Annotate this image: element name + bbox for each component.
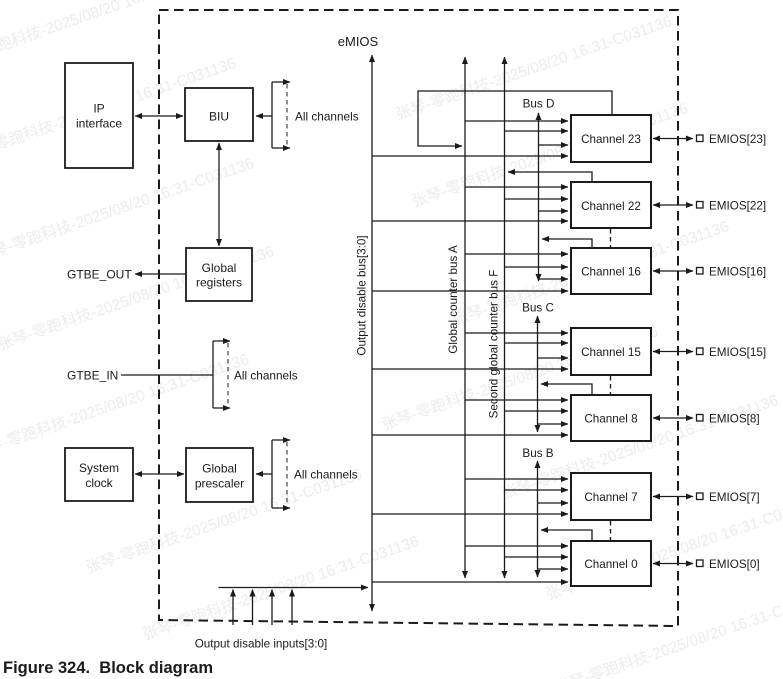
wires into Channel 16 <box>372 254 568 291</box>
svg-text:All channels: All channels <box>294 468 358 482</box>
box Channel 8 <box>571 395 651 441</box>
svg-text:Channel 8: Channel 8 <box>584 413 637 426</box>
wires into Channel 23 <box>372 121 568 156</box>
wire GTBE_IN <box>121 374 213 376</box>
svg-text:Second global counter bus F: Second global counter bus F <box>488 270 501 419</box>
EMIOS[22] pad <box>653 200 766 213</box>
svg-text:Channel 15: Channel 15 <box>581 346 641 359</box>
wire SystemClock-GlobalPrescaler double arrow <box>135 473 184 475</box>
wire IP-BIU double arrow <box>135 115 183 117</box>
wire channel0 drive loop to bus B <box>541 530 592 541</box>
svg-text:All channels: All channels <box>295 110 359 124</box>
wires into Channel 0 <box>372 546 568 582</box>
svg-text:Channel 16: Channel 16 <box>581 266 641 279</box>
svg-text:System: System <box>79 461 119 475</box>
box Channel 0 <box>571 541 651 586</box>
svg-text:Bus D: Bus D <box>523 98 555 111</box>
all-channels bracket at GTBE_IN <box>213 341 298 408</box>
EMIOS[15] pad <box>653 346 766 359</box>
svg-text:张琴-零跑科技-2025/08/20 16:31-C0311: 张琴-零跑科技-2025/08/20 16:31-C031136 <box>0 350 251 462</box>
svg-text:prescaler: prescaler <box>195 477 244 491</box>
svg-text:EMIOS[23]: EMIOS[23] <box>709 133 766 146</box>
box Channel 7 <box>571 473 651 520</box>
wires into Channel 7 <box>372 479 568 514</box>
svg-text:EMIOS[15]: EMIOS[15] <box>709 346 766 359</box>
dashed connector ch7-ch0 <box>610 521 612 540</box>
svg-text:interface: interface <box>76 117 122 131</box>
svg-text:Output disable bus[3:0]: Output disable bus[3:0] <box>356 235 369 355</box>
wire BIU-Global registers double arrow <box>218 143 220 246</box>
box Global registers <box>186 248 252 301</box>
svg-text:GTBE_OUT: GTBE_OUT <box>67 268 132 282</box>
wires into Channel 8 <box>372 400 568 435</box>
svg-text:EMIOS[22]: EMIOS[22] <box>709 200 766 213</box>
svg-text:All channels: All channels <box>234 369 298 383</box>
svg-text:IP: IP <box>93 102 104 116</box>
box Channel 22 <box>571 182 651 228</box>
svg-text:Global counter bus A: Global counter bus A <box>447 245 460 354</box>
svg-text:eMIOS: eMIOS <box>338 34 379 49</box>
output disable input arrows <box>233 590 292 626</box>
svg-text:Channel 22: Channel 22 <box>581 200 641 213</box>
wires into Channel 15 <box>372 333 568 369</box>
wire output disable collector <box>219 587 369 589</box>
wire channel22 drive loop to bus F <box>508 172 592 182</box>
box Channel 23 <box>571 115 651 162</box>
svg-text:clock: clock <box>85 476 113 490</box>
svg-text:registers: registers <box>196 276 242 290</box>
svg-text:Global: Global <box>202 261 237 275</box>
EMIOS[23] pad <box>653 133 766 146</box>
svg-text:Global: Global <box>202 462 237 476</box>
box System clock <box>65 448 133 501</box>
EMIOS[7] pad <box>653 491 760 504</box>
all-channels bracket at BIU <box>256 82 359 148</box>
svg-text:EMIOS[16]: EMIOS[16] <box>709 266 766 279</box>
svg-text:Bus C: Bus C <box>522 302 554 315</box>
bus Second global counter bus F vertical <box>504 57 506 578</box>
wires into Channel 22 <box>372 187 568 221</box>
svg-text:EMIOS[0]: EMIOS[0] <box>709 558 760 571</box>
svg-text:Bus B: Bus B <box>522 447 553 460</box>
svg-text:Channel 23: Channel 23 <box>581 133 641 146</box>
box Channel 16 <box>571 248 651 294</box>
EMIOS[0] pad <box>653 558 760 571</box>
wire GTBE_OUT arrow <box>135 273 186 275</box>
svg-text:BIU: BIU <box>209 110 229 124</box>
dashed connector ch22-ch16 <box>610 229 612 247</box>
wire channel16 drive loop to bus D <box>542 239 592 248</box>
bus B vertical <box>537 461 539 577</box>
svg-text:Channel 0: Channel 0 <box>584 558 638 571</box>
wire channel8 drive loop to bus C <box>541 384 592 395</box>
box IP interface <box>65 63 133 168</box>
svg-text:Output disable inputs[3:0]: Output disable inputs[3:0] <box>195 638 328 651</box>
bus Global counter bus A vertical <box>464 57 466 578</box>
svg-text:Figure 324. Block diagram: Figure 324. Block diagram <box>3 659 213 677</box>
svg-text:EMIOS[7]: EMIOS[7] <box>709 491 760 504</box>
EMIOS[8] pad <box>653 413 760 426</box>
dashed connector ch15-ch8 <box>610 376 612 394</box>
svg-text:EMIOS[8]: EMIOS[8] <box>709 413 760 426</box>
bus Output disable bus[3:0] vertical <box>371 55 373 611</box>
box BIU <box>185 88 253 141</box>
box Global prescaler <box>186 448 253 502</box>
wire channel23 drive loop to bus A <box>418 91 612 146</box>
eMIOS dashed boundary <box>159 10 678 626</box>
svg-text:Channel 7: Channel 7 <box>584 491 637 504</box>
svg-text:GTBE_IN: GTBE_IN <box>67 369 118 383</box>
bus C vertical <box>537 316 539 432</box>
bus D vertical <box>538 113 540 281</box>
box Channel 15 <box>571 328 651 375</box>
svg-text:张琴-零跑科技-2025/08/20 16:31-C0311: 张琴-零跑科技-2025/08/20 16:31-C031136 <box>552 585 783 679</box>
EMIOS[16] pad <box>653 266 766 279</box>
all-channels bracket at Global prescaler <box>256 440 358 508</box>
